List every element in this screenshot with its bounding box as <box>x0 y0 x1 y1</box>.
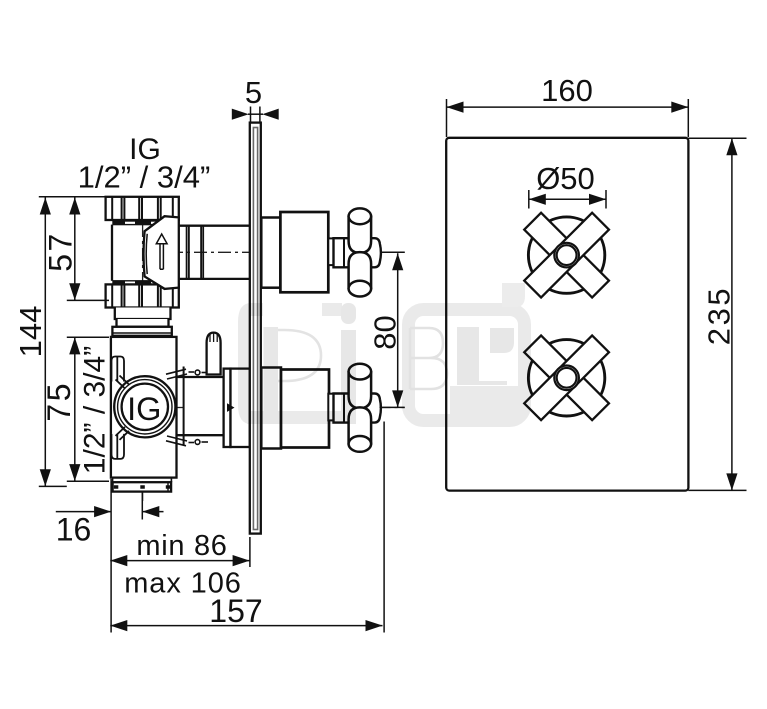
svg-text:160: 160 <box>541 73 593 108</box>
svg-text:5: 5 <box>245 75 262 110</box>
svg-text:157: 157 <box>209 593 262 629</box>
svg-text:235: 235 <box>702 286 737 346</box>
svg-text:Ø50: Ø50 <box>536 161 595 196</box>
svg-text:16: 16 <box>56 512 92 548</box>
svg-text:75: 75 <box>41 381 77 422</box>
svg-text:1/2” / 3/4”: 1/2” / 3/4” <box>79 346 112 474</box>
svg-text:min 86: min 86 <box>136 530 227 562</box>
svg-text:144: 144 <box>13 306 48 358</box>
svg-text:IG: IG <box>127 391 161 427</box>
svg-text:80: 80 <box>368 315 403 349</box>
svg-text:1/2” / 3/4”: 1/2” / 3/4” <box>78 160 211 195</box>
svg-text:57: 57 <box>43 231 79 272</box>
